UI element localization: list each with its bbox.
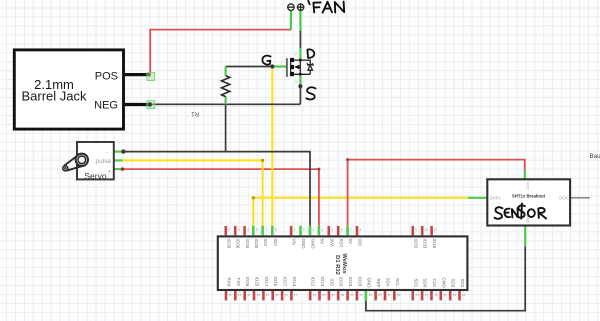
svg-text:1: 1 xyxy=(281,62,283,66)
svg-text:3: 3 xyxy=(313,228,315,232)
svg-text:TX0: TX0 xyxy=(236,278,241,287)
svg-text:POS: POS xyxy=(95,71,118,83)
svg-text:2: 2 xyxy=(228,228,230,232)
svg-text:14: 14 xyxy=(257,293,261,297)
svg-text:1: 1 xyxy=(294,228,296,232)
svg-text:IO17: IO17 xyxy=(264,277,269,287)
svg-text:CMD: CMD xyxy=(441,278,446,289)
svg-text:IO26: IO26 xyxy=(245,277,250,287)
svg-text:3: 3 xyxy=(295,80,297,84)
svg-text:CLK: CLK xyxy=(432,279,437,288)
svg-text:IO19: IO19 xyxy=(348,277,353,287)
svg-text:Barrel Jack: Barrel Jack xyxy=(21,89,87,104)
svg-text:NEG: NEG xyxy=(94,100,118,112)
svg-text:DATA: DATA xyxy=(490,195,501,200)
svg-text:36: 36 xyxy=(397,293,401,297)
svg-text:11: 11 xyxy=(434,228,438,232)
svg-text:pulse: pulse xyxy=(95,158,111,165)
svg-text:3V3: 3V3 xyxy=(329,239,334,248)
svg-text:VN: VN xyxy=(292,239,297,245)
svg-text:+: + xyxy=(108,169,111,175)
svg-text:IO39: IO39 xyxy=(226,239,231,249)
svg-text:IO32: IO32 xyxy=(413,239,418,249)
svg-text:11: 11 xyxy=(247,293,251,297)
svg-text:RST: RST xyxy=(339,239,344,248)
svg-text:R1: R1 xyxy=(191,110,199,116)
svg-text:SCK: SCK xyxy=(559,195,568,200)
svg-text:GND: GND xyxy=(366,278,371,289)
svg-text:IO34: IO34 xyxy=(245,239,250,249)
svg-text:11: 11 xyxy=(285,293,289,297)
svg-text:11: 11 xyxy=(388,293,392,297)
svg-text:8: 8 xyxy=(275,228,277,232)
svg-text:31: 31 xyxy=(434,293,438,297)
svg-text:11: 11 xyxy=(425,293,429,297)
svg-text:IO2: IO2 xyxy=(273,239,278,247)
svg-text:Servo: Servo xyxy=(84,171,106,181)
svg-text:IO0: IO0 xyxy=(358,239,363,247)
svg-text:IO12: IO12 xyxy=(311,277,316,287)
svg-text:41: 41 xyxy=(453,293,457,297)
svg-text:WeMos: WeMos xyxy=(341,253,347,273)
svg-text:IO4: IO4 xyxy=(263,239,268,247)
svg-text:4: 4 xyxy=(247,228,249,232)
svg-text:IO5: IO5 xyxy=(329,279,334,287)
svg-text:SHT1x Breakout: SHT1x Breakout xyxy=(512,194,546,199)
svg-text:30: 30 xyxy=(443,293,447,297)
svg-text:2: 2 xyxy=(295,52,297,56)
svg-text:IO36: IO36 xyxy=(236,239,241,249)
svg-text:Baud: Baud xyxy=(590,153,600,160)
svg-text:VCC: VCC xyxy=(526,182,531,191)
svg-text:IO14: IO14 xyxy=(292,277,297,287)
svg-text:11: 11 xyxy=(266,293,270,297)
svg-text:36: 36 xyxy=(341,293,345,297)
svg-text:4: 4 xyxy=(321,228,323,232)
svg-text:REF: REF xyxy=(376,279,381,288)
svg-text:2: 2 xyxy=(303,228,305,232)
svg-text:5V: 5V xyxy=(348,239,353,245)
svg-text:6: 6 xyxy=(341,228,343,232)
svg-text:31: 31 xyxy=(331,293,335,297)
svg-text:11: 11 xyxy=(229,293,233,297)
svg-text:30: 30 xyxy=(378,293,382,297)
svg-text:GND: GND xyxy=(301,239,306,250)
svg-text:IO27: IO27 xyxy=(283,277,288,287)
svg-text:31: 31 xyxy=(415,293,419,297)
svg-text:14: 14 xyxy=(359,293,363,297)
svg-text:RX0: RX0 xyxy=(227,278,232,287)
svg-text:11: 11 xyxy=(294,293,298,297)
svg-text:IO33: IO33 xyxy=(423,239,428,249)
svg-text:30: 30 xyxy=(275,293,279,297)
svg-text:5: 5 xyxy=(256,228,258,232)
svg-text:IO35: IO35 xyxy=(254,239,259,249)
svg-text:IO13: IO13 xyxy=(320,277,325,287)
svg-text:SD3: SD3 xyxy=(451,279,456,288)
svg-text:IO23: IO23 xyxy=(339,277,344,287)
svg-text:IO25: IO25 xyxy=(255,277,260,287)
svg-text:D1 R32: D1 R32 xyxy=(334,255,340,275)
svg-text:10: 10 xyxy=(424,228,428,232)
svg-text:3: 3 xyxy=(238,228,240,232)
svg-text:11: 11 xyxy=(313,293,317,297)
svg-text:9: 9 xyxy=(415,228,417,232)
svg-text:SCL: SCL xyxy=(395,278,400,287)
svg-text:14: 14 xyxy=(238,293,242,297)
svg-text:GND: GND xyxy=(311,239,316,250)
svg-text:7: 7 xyxy=(265,228,267,232)
svg-text:5: 5 xyxy=(331,228,333,232)
svg-text:IO15: IO15 xyxy=(432,239,437,249)
svg-text:IO18: IO18 xyxy=(357,277,362,287)
svg-text:7: 7 xyxy=(350,228,352,232)
svg-text:SD1: SD1 xyxy=(413,279,418,288)
svg-text:11: 11 xyxy=(350,293,354,297)
svg-text:SDA: SDA xyxy=(386,278,391,287)
svg-text:SD2: SD2 xyxy=(460,279,465,288)
svg-text:14: 14 xyxy=(322,293,326,297)
svg-text:IO16: IO16 xyxy=(273,277,278,287)
svg-text:31: 31 xyxy=(368,293,372,297)
svg-text:5V: 5V xyxy=(319,239,324,245)
svg-text:SD0: SD0 xyxy=(423,279,428,288)
svg-text:11: 11 xyxy=(462,293,466,297)
svg-text:8: 8 xyxy=(360,228,362,232)
